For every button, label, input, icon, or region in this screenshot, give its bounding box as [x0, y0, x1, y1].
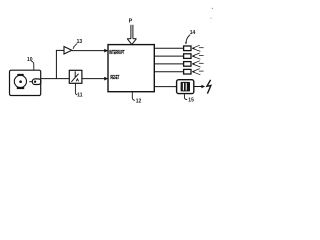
wire output 3	[154, 63, 183, 65]
node junction to amplifier branch	[55, 50, 57, 78]
sound symbol (lightning zigzag)	[207, 80, 211, 94]
label 14	[185, 30, 195, 44]
oscillator block 10 (box)	[10, 70, 41, 95]
wire buzzer sound output arrow	[194, 86, 202, 88]
svg-text:10: 10	[27, 57, 33, 63]
svg-text:14: 14	[190, 30, 196, 36]
divider box 11	[69, 70, 82, 83]
balance wheel (circle inside box 10)	[14, 75, 26, 88]
arrowhead into RESET	[104, 77, 108, 81]
svg-text:15: 15	[188, 98, 194, 104]
svg-text:12: 12	[136, 98, 142, 104]
svg-text:13: 13	[77, 39, 83, 45]
svg-text:RESET: RESET	[110, 75, 119, 81]
wire output 2	[154, 55, 183, 57]
svg-text:P: P	[129, 18, 133, 24]
display element 14c	[184, 61, 204, 67]
wire output 1	[154, 47, 183, 49]
svg-text:11: 11	[77, 93, 83, 99]
bus P (hollow arrow into top of box 12)	[127, 25, 136, 45]
label 12	[132, 92, 141, 105]
label 15	[184, 94, 194, 104]
wire divider to RESET input	[82, 78, 105, 80]
amplifier 13 (triangle)	[64, 47, 72, 55]
wire junction to amplifier input	[56, 49, 64, 51]
arrowhead into INTERRUPT	[104, 49, 108, 53]
display element 14d	[184, 69, 204, 75]
wire amplifier to INTERRUPT input	[72, 50, 105, 52]
display element 14b	[184, 53, 204, 59]
trimmer capsule inside box 10	[29, 79, 41, 85]
scan speck	[210, 18, 211, 19]
buzzer box 15	[177, 80, 194, 94]
wire to buzzer 15	[154, 86, 176, 88]
scan speck	[212, 8, 213, 9]
svg-text:INTERRUPT: INTERRUPT	[109, 50, 125, 56]
display element 14a	[184, 45, 204, 51]
label 13	[72, 39, 82, 49]
wire output 4	[154, 71, 183, 73]
microcomputer block 12 (big box)	[108, 45, 154, 92]
label 11	[75, 83, 82, 98]
wire oscillator output to divider 11	[41, 78, 69, 80]
label 10	[27, 57, 34, 70]
